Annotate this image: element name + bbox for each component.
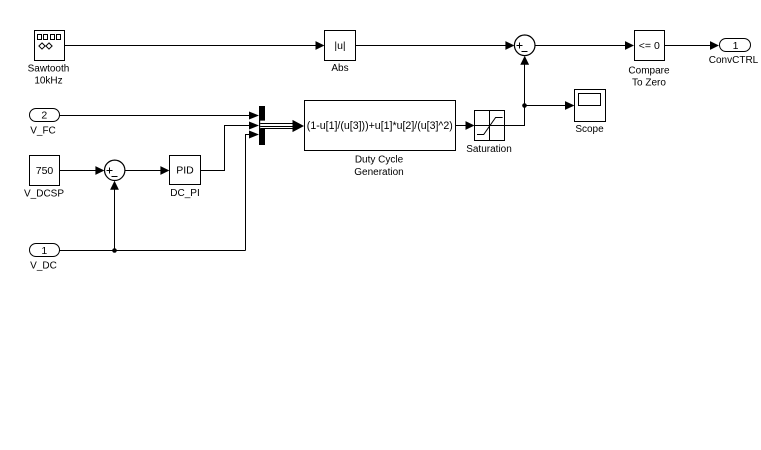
wire Compare to outport	[665, 45, 711, 47]
arrowhead mux input 3	[249, 131, 259, 139]
block PID DC_PI	[170, 156, 201, 185]
wire V_DC to corner	[60, 250, 246, 252]
wire PID to mux input 2	[201, 126, 251, 171]
svg-text:Abs: Abs	[331, 63, 348, 74]
arrowhead into Saturation	[466, 121, 475, 130]
wire V_DC up and to mux input 3	[246, 135, 251, 251]
source block Sawtooth 10kHz	[35, 31, 65, 61]
svg-text:|u|: |u|	[334, 40, 345, 52]
svg-text:V_FC: V_FC	[30, 125, 56, 136]
inport 1 V_DC	[30, 244, 60, 257]
block Abs	[325, 31, 356, 61]
junction node	[522, 103, 527, 108]
svg-text:To Zero: To Zero	[632, 78, 666, 89]
block Scope	[575, 90, 606, 122]
wire sum S2 to PID	[125, 170, 161, 172]
svg-text:V_DC: V_DC	[30, 260, 57, 271]
arrowhead into Scope	[565, 101, 575, 110]
wire sum S1 to Compare	[535, 45, 626, 47]
svg-text:(1-u[1]/(u[3]))+u[1]*u[2]/(u[3: (1-u[1]/(u[3]))+u[1]*u[2]/(u[3]^2)	[307, 120, 453, 132]
outport 1 ConvCTRL	[720, 39, 751, 52]
wire junction to Scope	[525, 105, 566, 107]
arrowhead into sum S1	[505, 41, 514, 50]
sum S2	[105, 160, 125, 180]
svg-text:Saturation: Saturation	[466, 144, 512, 155]
sum S1	[514, 35, 535, 56]
svg-text:Generation: Generation	[354, 167, 403, 178]
arrowhead into Fcn (wide)	[293, 120, 305, 132]
wire 750 to sum S2	[60, 170, 97, 172]
arrowhead mux input 1	[249, 112, 259, 120]
svg-text:PID: PID	[176, 165, 194, 177]
svg-text:750: 750	[36, 165, 54, 177]
wire Abs to sum S1	[356, 45, 507, 47]
arrowhead into PID	[160, 166, 169, 175]
Fcn block Duty Cycle Generation	[305, 101, 456, 151]
arrowhead mux input 2	[249, 122, 259, 130]
arrowhead into Compare	[625, 41, 634, 50]
wire Fcn to Saturation	[456, 125, 467, 127]
svg-text:V_DCSP: V_DCSP	[24, 189, 64, 200]
wire Sawtooth to Abs	[65, 45, 317, 47]
inport 2 V_FC	[30, 109, 60, 122]
svg-text:Duty Cycle: Duty Cycle	[355, 154, 404, 165]
svg-text:Scope: Scope	[575, 124, 604, 135]
block Saturation	[475, 111, 505, 141]
block Compare To Zero	[635, 31, 665, 61]
wire V_FC to mux	[60, 115, 251, 117]
svg-text:1: 1	[733, 40, 739, 52]
wire Saturation to corner	[505, 125, 525, 127]
wire junction up to sum S2	[114, 190, 116, 251]
svg-text:Sawtooth: Sawtooth	[28, 64, 70, 75]
svg-text:ConvCTRL: ConvCTRL	[709, 55, 759, 66]
svg-text:<= 0: <= 0	[639, 40, 660, 52]
junction node on V_DC wire	[112, 248, 117, 253]
arrowhead into Abs	[316, 41, 325, 50]
constant block 750	[30, 156, 60, 186]
wire mux output (vector, 3 lines)	[260, 124, 293, 129]
arrowhead into sum S2	[95, 166, 104, 175]
arrowhead up into sum S1	[520, 56, 529, 65]
svg-text:2: 2	[41, 110, 47, 122]
mux Mux	[259, 106, 265, 145]
svg-text:1: 1	[41, 245, 47, 257]
arrowhead into outport	[710, 41, 719, 50]
arrowhead up into sum S2	[110, 181, 119, 190]
svg-text:DC_PI: DC_PI	[170, 188, 199, 199]
wire vertical up to sum S1	[524, 65, 526, 127]
svg-text:Compare: Compare	[628, 66, 670, 77]
svg-text:10kHz: 10kHz	[34, 76, 62, 87]
